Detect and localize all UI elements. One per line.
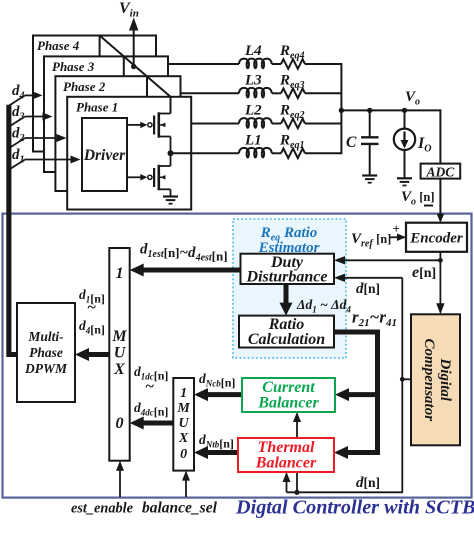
svg-text:Disturbance: Disturbance [246,269,328,286]
svg-text:Phase 4: Phase 4 [37,38,80,53]
svg-text:X: X [113,361,125,378]
svg-text:balance_sel: balance_sel [142,500,218,517]
svg-text:ADC: ADC [426,164,456,179]
svg-text:M: M [176,401,190,416]
svg-text:X: X [178,431,189,446]
svg-text:0: 0 [116,415,124,432]
svg-text:Phase 1: Phase 1 [76,100,118,115]
svg-text:Thermal: Thermal [258,439,315,456]
svg-text:~: ~ [87,299,96,316]
svg-text:Current: Current [262,379,315,396]
svg-text:Balancer: Balancer [255,455,317,472]
svg-text:DPWM: DPWM [24,361,68,376]
svg-text:e[n]: e[n] [412,264,436,281]
svg-text:Δd1 ~ Δd4: Δd1 ~ Δd4 [296,297,351,315]
svg-text:+: + [393,221,400,236]
svg-text:Encoder: Encoder [409,231,463,247]
svg-text:M: M [111,328,127,345]
svg-text:Digital: Digital [437,358,453,402]
svg-text:d[n]: d[n] [356,281,380,297]
svg-text:Phase: Phase [29,345,63,360]
svg-text:Phase 3: Phase 3 [52,59,95,74]
svg-text:1: 1 [180,386,187,401]
svg-text:Compensator: Compensator [421,339,437,422]
svg-text:L4: L4 [244,43,262,59]
svg-text:Estimator: Estimator [258,240,320,256]
svg-text:L3: L3 [244,72,262,88]
svg-text:U: U [114,345,127,362]
svg-text:Phase 2: Phase 2 [63,79,106,94]
svg-text:Multi-: Multi- [27,329,64,344]
svg-text:U: U [179,416,190,431]
svg-text:~: ~ [145,378,154,395]
svg-text:Calculation: Calculation [248,331,325,348]
svg-text:0: 0 [180,447,187,462]
svg-text:d[n]: d[n] [356,475,380,491]
svg-text:L1: L1 [244,132,262,148]
svg-text:1: 1 [116,265,124,282]
svg-text:est_enable: est_enable [71,501,134,517]
svg-text:Driver: Driver [83,147,126,164]
svg-text:C: C [346,134,357,151]
svg-text:Balancer: Balancer [257,395,319,412]
svg-text:Digtal Controller with SCTB: Digtal Controller with SCTB [235,497,474,519]
svg-text:L2: L2 [244,103,262,119]
